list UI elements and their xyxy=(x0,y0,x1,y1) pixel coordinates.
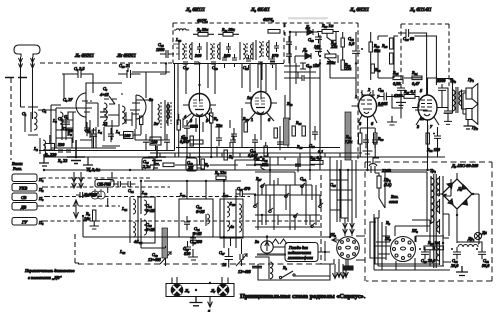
svg-text:Ш₃: Ш₃ xyxy=(411,228,418,233)
dashed border FM unit top xyxy=(40,62,172,64)
caps under IF1 xyxy=(183,62,216,64)
psu winding taps xyxy=(443,179,451,262)
resistor R12 1.0 xyxy=(242,116,249,132)
svg-text:Тр₁: Тр₁ xyxy=(430,168,436,173)
tape-switch wire loop xyxy=(258,264,330,280)
cap C47 out xyxy=(444,106,452,124)
ground mid2 xyxy=(150,157,160,168)
cap C19 box xyxy=(186,158,197,171)
dashed box IF1 left xyxy=(172,23,174,63)
svg-text:ДВ: ДВ xyxy=(20,205,27,210)
FM density: caps xyxy=(84,122,114,142)
antenna W1 xyxy=(14,45,40,119)
cap C26 0.047 xyxy=(248,134,258,158)
cap C10 xyxy=(85,128,97,142)
wire coil block feeders xyxy=(141,181,256,248)
resistor R36 xyxy=(424,240,444,250)
bus y181 xyxy=(144,180,241,182)
choke Dr1 xyxy=(458,236,478,247)
arrow a xyxy=(208,297,213,308)
resistor R27 xyxy=(400,89,419,108)
bus B+ y170 xyxy=(44,169,430,171)
svg-text:Л₄ 6Н2П: Л₄ 6Н2П xyxy=(349,7,369,13)
svg-text:6÷25: 6÷25 xyxy=(196,209,205,214)
cap C33 xyxy=(309,126,318,148)
extra labels scatter xyxy=(42,37,463,254)
svg-text:Др₁: Др₁ xyxy=(467,236,475,241)
lamp wiring loop xyxy=(166,278,234,297)
electrolytic C38 20.0 xyxy=(419,247,436,263)
svg-text:Л₅ 6П14П: Л₅ 6П14П xyxy=(409,7,431,13)
dashed corner left xyxy=(75,234,79,263)
svg-text:R₅ 33к: R₅ 33к xyxy=(196,27,208,32)
resistor R8h 2.2k xyxy=(180,135,203,144)
lamp L6 xyxy=(171,284,190,296)
tube pin fans L5 xyxy=(416,117,439,125)
svg-text:сети: сети xyxy=(389,199,398,204)
wire IF1 feeders xyxy=(160,63,266,94)
svg-text:R₇: R₇ xyxy=(204,162,210,167)
button box SV xyxy=(12,193,44,201)
svg-text:C₁₀ 21: C₁₀ 21 xyxy=(119,63,130,68)
svg-text:R₁ 22: R₁ 22 xyxy=(57,158,67,163)
wire band bus left xyxy=(83,216,179,237)
resistor R23 22k xyxy=(330,38,344,49)
svg-text:Л₂ 6И1П: Л₂ 6И1П xyxy=(185,7,205,13)
svg-text:C₄₃: C₄₃ xyxy=(308,37,314,42)
speaker wiring xyxy=(462,90,467,114)
svg-text:C₃₂200: C₃₂200 xyxy=(190,239,203,244)
svg-text:C₉: C₉ xyxy=(103,86,108,91)
capacitor C13 1500 xyxy=(156,42,174,58)
svg-text:L₆: L₆ xyxy=(115,129,120,134)
dashed box IF1/IF2 top xyxy=(173,22,358,24)
svg-text:360: 360 xyxy=(224,53,231,58)
connector claws xyxy=(272,239,287,244)
cap C21 xyxy=(231,128,237,142)
detector link wires xyxy=(284,63,320,78)
cap C30 820 xyxy=(183,241,191,256)
svg-text:100: 100 xyxy=(124,133,131,138)
svg-text:L₁₆: L₁₆ xyxy=(179,192,186,197)
svg-text:68к: 68к xyxy=(374,48,380,53)
wire volume feed xyxy=(330,62,356,78)
svg-text:C₃₅: C₃₅ xyxy=(330,182,336,187)
ground under C37 6200 xyxy=(396,96,406,105)
resistor R25 with pot xyxy=(253,155,270,170)
svg-text:L₄: L₄ xyxy=(97,129,102,134)
black connector blob xyxy=(344,266,353,270)
resistor R9 22k xyxy=(210,108,219,129)
ground dipole right xyxy=(107,172,116,181)
svg-text:L₁₈: L₁₈ xyxy=(222,192,229,197)
transformer FM discriminator xyxy=(152,100,168,140)
switch contact a5 xyxy=(293,213,298,218)
wire row y215 xyxy=(255,215,320,230)
resistor R10 xyxy=(190,136,193,146)
svg-text:R₂₄ 1к: R₂₄ 1к xyxy=(427,240,439,245)
dashed linkage lines xyxy=(42,177,150,179)
fuse Pr1 xyxy=(377,176,392,188)
svg-text:Зв: Зв xyxy=(255,239,259,244)
svg-text:R₁₀: R₁₀ xyxy=(180,135,187,140)
cap C36 0.035 xyxy=(378,87,400,106)
svg-text:16к: 16к xyxy=(84,216,90,221)
svg-text:Л₃ 6К4П: Л₃ 6К4П xyxy=(250,7,270,13)
wires FM extra xyxy=(39,63,178,151)
wire tube grid leads xyxy=(200,63,262,92)
resistor R3 16k xyxy=(84,210,96,221)
switch V1 xyxy=(269,262,330,279)
svg-text:C₁: C₁ xyxy=(42,108,47,113)
wire varcap stems xyxy=(231,237,242,248)
cluster caps under L2 xyxy=(216,132,236,148)
opposing arrows xyxy=(74,200,79,218)
svg-text:6200: 6200 xyxy=(394,93,403,98)
cap box C13 100 xyxy=(150,137,161,145)
svg-text:Ш₃: Ш₃ xyxy=(384,236,391,241)
svg-text:Л₆: Л₆ xyxy=(184,288,190,293)
long feed verticals xyxy=(290,63,320,166)
svg-text:L₁₀: L₁₀ xyxy=(175,37,182,42)
cap C39 0.1 xyxy=(295,158,301,172)
L5 cathode RC xyxy=(426,133,429,144)
faint struck note xyxy=(288,18,328,19)
cap box C16 2.2n xyxy=(142,158,154,170)
socket Sh2 xyxy=(329,232,359,259)
svg-text:L₁₃: L₁₃ xyxy=(141,190,148,195)
series cap in link wire xyxy=(118,70,141,78)
svg-text:C₁₁: C₁₁ xyxy=(128,188,134,193)
cap C40 470 xyxy=(236,186,251,197)
coil box left xyxy=(138,197,155,243)
svg-text:Д₁: Д₁ xyxy=(305,24,311,29)
wire C30 stem xyxy=(192,237,194,240)
cap C20 0.047 xyxy=(180,120,190,144)
svg-text:Д₂: Д₂ xyxy=(302,47,308,52)
svg-text:L₂₀: L₂₀ xyxy=(229,201,236,206)
FM C3 link wires xyxy=(62,74,93,98)
svg-text:П₂: П₂ xyxy=(38,187,44,192)
resistor R13 vert xyxy=(274,128,277,138)
coil L14 with trimmer C26 xyxy=(136,218,155,244)
mid-right horizontals xyxy=(330,180,352,218)
svg-text:C₂₉: C₂₉ xyxy=(378,87,384,92)
bold ground mid xyxy=(148,146,166,164)
svg-text:820: 820 xyxy=(184,251,191,256)
wire L5 anode row xyxy=(402,76,437,85)
svg-text:50,0: 50,0 xyxy=(482,263,490,268)
lamp Da xyxy=(474,230,486,240)
svg-text:3в: 3в xyxy=(154,121,158,126)
coils L20 L21 right pair xyxy=(224,200,242,236)
switch contact a3 xyxy=(300,183,305,188)
ground under C30 xyxy=(188,249,198,260)
coil box right xyxy=(220,199,243,238)
variable cap C37 xyxy=(219,248,233,268)
resistor R35 0.39 xyxy=(392,70,403,86)
svg-text:1м: 1м xyxy=(247,95,252,100)
svg-text:в положении „ДВ“: в положении „ДВ“ xyxy=(28,275,62,280)
button box GU xyxy=(12,218,44,226)
button box blank xyxy=(12,174,44,182)
resistor R14 33k xyxy=(261,146,268,167)
svg-text:7,5к: 7,5к xyxy=(345,139,352,144)
caps under L3 xyxy=(277,136,283,150)
bridge right drop xyxy=(478,194,479,244)
under-L2 verticals xyxy=(183,118,233,157)
resistor R15 xyxy=(163,163,174,167)
shield bar 3 xyxy=(162,228,168,258)
box AM IF transformer middle xyxy=(179,199,213,237)
cap C22 360 xyxy=(195,43,202,58)
svg-text:L₁₂: L₁₂ xyxy=(119,249,126,254)
svg-text:Д₅: Д₅ xyxy=(457,186,463,191)
svg-text:П₃: П₃ xyxy=(38,196,44,201)
bus y237 xyxy=(179,236,330,238)
svg-text:a: a xyxy=(208,308,210,312)
svg-text:12÷495: 12÷495 xyxy=(238,269,251,274)
tube pin fans L2 xyxy=(183,113,215,125)
cap C34 270 xyxy=(272,42,279,58)
svg-text:Д₅ АВС-80-260: Д₅ АВС-80-260 xyxy=(451,163,479,168)
wires mid tubes xyxy=(230,32,338,170)
resistor R11 33k xyxy=(218,27,239,36)
resistor R33 150k xyxy=(374,133,385,144)
svg-text:R₂ 220: R₂ 220 xyxy=(44,152,57,157)
svg-text:C₄₀ 470: C₄₀ 470 xyxy=(237,186,251,191)
svg-text:22к: 22к xyxy=(345,66,351,71)
ground top xyxy=(39,155,49,166)
switch contact a8 xyxy=(318,203,323,208)
socket Sh3 xyxy=(384,236,416,262)
arrows out of Sh2 xyxy=(337,259,349,278)
svg-text:22: 22 xyxy=(103,121,107,126)
caps pair xyxy=(113,181,135,187)
svg-text:8в: 8в xyxy=(149,97,153,102)
resistor R8 22k horizontal xyxy=(214,170,226,180)
diode D2 xyxy=(298,47,320,68)
Sh3 ladder rails xyxy=(374,214,450,270)
ground rail y147 xyxy=(176,147,340,149)
variable cap second gang xyxy=(236,248,251,274)
tube L4 6N2P xyxy=(352,92,384,126)
svg-text:L₃: L₃ xyxy=(52,118,57,123)
svg-text:6÷25: 6÷25 xyxy=(146,227,155,232)
cathode resistor right triode xyxy=(140,116,143,125)
triode half La1 xyxy=(76,93,92,132)
cathode cap blob L2 xyxy=(190,125,198,129)
switch matrix verticals xyxy=(258,180,316,230)
svg-text:3: 3 xyxy=(417,124,419,129)
ground under C36 xyxy=(387,116,397,125)
cap on det link xyxy=(300,60,306,69)
diode D1 xyxy=(300,24,319,35)
electrolytic C41 xyxy=(451,247,461,268)
bus AVC y157 xyxy=(44,156,445,158)
shield bar 2 xyxy=(345,112,351,160)
cap C42 3.0 electrolytic xyxy=(348,36,363,58)
svg-text:4÷15: 4÷15 xyxy=(100,92,109,97)
lamp L7 xyxy=(210,284,229,296)
svg-text:0,005: 0,005 xyxy=(378,101,387,106)
wire detector column xyxy=(320,32,371,63)
svg-text:C₃ 3,5: C₃ 3,5 xyxy=(74,66,85,71)
ground under L2 tube xyxy=(195,157,205,168)
svg-text:330: 330 xyxy=(58,142,65,147)
caps under IF2 xyxy=(258,62,275,64)
svg-text:3,0: 3,0 xyxy=(349,41,355,46)
resistor R31 7.5k xyxy=(345,133,362,144)
resistor R5 33k xyxy=(193,27,214,36)
coil form box 330 xyxy=(56,138,72,152)
caps pair near L4 bus xyxy=(363,134,378,148)
svg-text:6÷25: 6÷25 xyxy=(146,208,155,213)
tube L5 6P14P xyxy=(412,85,443,129)
dashed box L5 top xyxy=(401,23,449,25)
svg-text:2,2н: 2,2н xyxy=(143,164,150,169)
dashed right edge detector xyxy=(357,23,359,162)
wire R3 link xyxy=(107,187,109,207)
switch contact a7 xyxy=(253,203,258,208)
wire row y172 xyxy=(255,172,312,200)
svg-text:R₃₅: R₃₅ xyxy=(392,70,399,75)
svg-text:R₂₈: R₂₈ xyxy=(381,43,388,48)
resistor 100 box xyxy=(124,132,134,139)
svg-text:L₁₁: L₁₁ xyxy=(121,206,128,211)
tube L2 6I1P xyxy=(183,86,216,125)
svg-text:C₃₄: C₃₄ xyxy=(300,176,306,181)
coil L10 xyxy=(174,29,189,30)
svg-text:2: 2 xyxy=(368,87,370,92)
svg-text:0,39: 0,39 xyxy=(393,81,401,86)
wire switch feed rows xyxy=(235,157,310,180)
speaker Gr2 xyxy=(466,104,478,130)
coil L1 with cap C1 xyxy=(22,107,38,135)
cap C37 6200 xyxy=(394,84,405,98)
box SN-70B xyxy=(95,180,114,188)
svg-text:R₈ 22к: R₈ 22к xyxy=(214,170,226,175)
wire row y195 xyxy=(255,195,320,210)
switch contact a4 xyxy=(268,208,273,213)
IF2 tube verticals xyxy=(262,63,276,90)
wire L3 cathode drops xyxy=(255,142,266,157)
caps dipole xyxy=(76,192,89,198)
resistor R7 xyxy=(201,159,210,169)
bus y153 xyxy=(150,152,362,154)
psu extra loops xyxy=(370,220,444,270)
ground speakers xyxy=(464,120,473,130)
dipole arrows xyxy=(72,172,84,188)
svg-text:0,47: 0,47 xyxy=(412,81,420,86)
coil L2 bottom left xyxy=(33,138,46,155)
IF transformer 1b xyxy=(207,42,220,60)
coil L3 tank xyxy=(52,108,76,148)
resistor R6 xyxy=(177,114,180,136)
resistor R29 0.1 xyxy=(309,155,323,164)
wires aux xyxy=(252,235,330,268)
IF transformer 1a xyxy=(173,42,192,60)
under L3 resistors R16 R17 xyxy=(292,120,305,136)
plug 220V xyxy=(369,164,377,173)
svg-text:R₁₆: R₁₆ xyxy=(295,120,302,125)
wire button stubs xyxy=(37,178,46,221)
psu wiring loops xyxy=(382,236,444,270)
wire Sh2 right links xyxy=(348,236,365,266)
svg-text:R₃₄: R₃₄ xyxy=(411,70,418,75)
wire L4 grid leads xyxy=(356,63,375,95)
svg-text:20,0: 20,0 xyxy=(451,263,459,268)
output transformer Tr2 xyxy=(450,78,462,113)
wire output coupling xyxy=(437,79,453,114)
down arrows to chassis xyxy=(333,264,346,279)
svg-text:ФПЧ₁: ФПЧ₁ xyxy=(197,18,208,23)
button box DV xyxy=(12,203,37,211)
dashed tuning-gang line xyxy=(78,263,321,265)
resistor R29 68k xyxy=(369,42,380,53)
cap C12 xyxy=(143,134,149,148)
wires FM unit xyxy=(21,83,166,148)
resistor R30 xyxy=(371,64,381,73)
coil L13 with trimmer C24 xyxy=(141,198,155,215)
left AM coil pair L11 L12 xyxy=(121,197,138,244)
dashed box power xyxy=(365,162,492,281)
caps between IF2 and detector xyxy=(285,23,300,63)
button box UKV xyxy=(12,184,44,193)
FM L3 frame xyxy=(51,105,73,150)
svg-text:Л₇: Л₇ xyxy=(210,288,216,293)
power transformer Tr1 xyxy=(430,168,440,268)
svg-text:R₂₇ 0,1: R₂₇ 0,1 xyxy=(403,89,416,94)
svg-text:Принципиальная схема радиолы «: Принципиальная схема радиолы «Сириус». xyxy=(240,293,366,300)
svg-text:R₁₆: R₁₆ xyxy=(296,144,303,149)
svg-text:Лб 6Н3П: Лб 6Н3П xyxy=(116,53,136,59)
resistor R8 22k vert xyxy=(224,150,234,160)
transformer rails xyxy=(427,176,443,266)
svg-text:В₂: В₂ xyxy=(386,220,391,225)
bus under IF boxes xyxy=(173,63,284,65)
switch row y227 xyxy=(255,226,320,228)
caps C43 C44 xyxy=(308,33,322,55)
wire R31 R30 stems xyxy=(360,128,375,157)
shield bar 1 xyxy=(284,118,290,145)
FM discr second core xyxy=(154,102,171,126)
psu vertical feeders xyxy=(337,160,356,222)
FM density: horiz xyxy=(56,120,132,146)
pot R20 1M xyxy=(317,23,339,40)
svg-text:Лa 6Н3П: Лa 6Н3П xyxy=(74,53,94,59)
wire tuning link xyxy=(321,259,334,264)
bridge rectifier D5 xyxy=(436,173,479,215)
svg-text:Реж.: Реж. xyxy=(12,166,22,171)
svg-text:ФПЧ₂: ФПЧ₂ xyxy=(263,17,274,22)
bold ground left xyxy=(67,140,85,164)
psu top wires xyxy=(373,158,427,208)
wire L5 grid network xyxy=(378,36,436,118)
ground lamps xyxy=(190,297,203,306)
cap C26 68 xyxy=(398,29,427,95)
svg-text:C₄ 27: C₄ 27 xyxy=(63,97,73,102)
svg-text:100: 100 xyxy=(151,140,158,145)
caps row under IF1 xyxy=(222,54,237,68)
svg-text:R₂₀ 1м: R₂₀ 1м xyxy=(321,23,334,28)
dashed right riser xyxy=(320,175,322,264)
svg-text:C₃₇: C₃₇ xyxy=(219,250,225,255)
wire row y165 xyxy=(255,157,315,165)
svg-text:12÷495: 12÷495 xyxy=(148,257,161,262)
svg-text:R₁₁ 33к: R₁₁ 33к xyxy=(221,27,235,32)
volume pot R24 xyxy=(325,50,336,65)
